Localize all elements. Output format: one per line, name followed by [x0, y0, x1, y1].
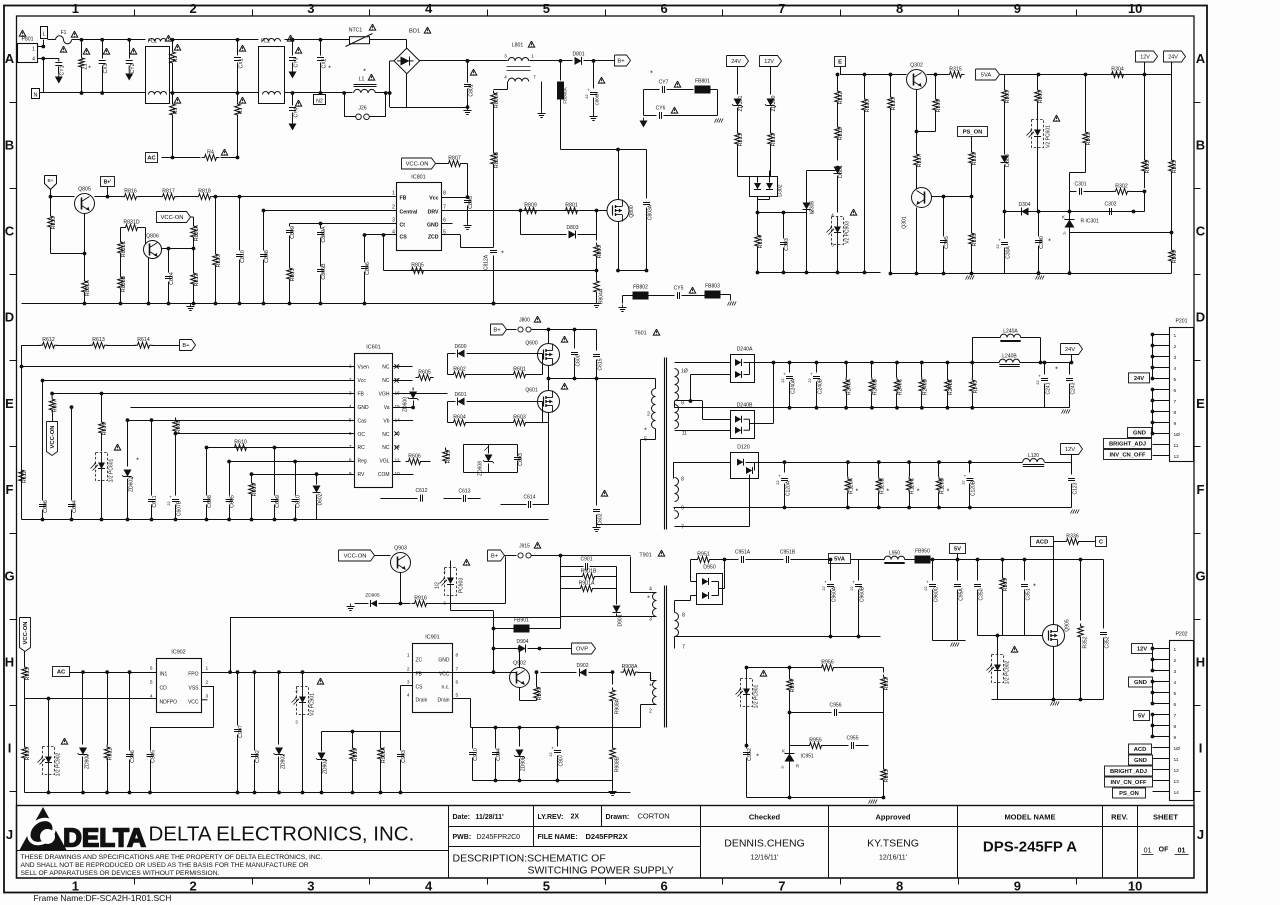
- svg-text:14: 14: [1174, 790, 1180, 796]
- diode D240A-1: [735, 359, 741, 366]
- resistor R602v: [51, 394, 53, 397]
- tick top: [605, 10, 607, 17]
- wire to fb901: [494, 628, 508, 630]
- svg-text:8: 8: [681, 477, 684, 483]
- wire 12v down: [1144, 62, 1146, 158]
- svg-text:L950: L950: [889, 551, 900, 557]
- P202 pin 5: [1153, 692, 1170, 694]
- svg-text:*: *: [136, 458, 139, 465]
- svg-text:V2 PC601: V2 PC601: [1046, 125, 1052, 148]
- wire N stub: [43, 59, 45, 94]
- svg-text:C301: C301: [1075, 181, 1087, 187]
- zener ZD905 body: [371, 600, 377, 607]
- capacitor C615: [596, 330, 598, 351]
- capacitor C241: [1044, 363, 1046, 375]
- wire r816-r817: [139, 196, 161, 198]
- capacitor C808: [263, 211, 265, 251]
- svg-text:+: +: [169, 495, 172, 500]
- wire E down: [840, 67, 842, 75]
- snubber C901 R901B R901A: [560, 556, 562, 617]
- capacitor C960C: [932, 560, 934, 581]
- svg-text:1Ø: 1Ø: [681, 369, 688, 375]
- svg-text:ZD600: ZD600: [403, 397, 409, 412]
- wire c612 row: [381, 498, 418, 500]
- wire 5va to rail: [1000, 74, 1005, 76]
- svg-text:B+: B+: [491, 554, 499, 560]
- svg-text:R801: R801: [565, 203, 578, 209]
- capacitor C95A: [957, 560, 959, 581]
- capacitor C951A: [741, 556, 743, 563]
- svg-text:3: 3: [1174, 355, 1177, 361]
- net label B+ 915: [488, 550, 505, 561]
- svg-text:3: 3: [392, 218, 395, 224]
- tick right: [1194, 446, 1201, 448]
- title header divider: [701, 826, 1195, 828]
- svg-text:R615: R615: [446, 451, 452, 464]
- wire t901 pin4: [631, 592, 657, 594]
- diode D304: [1021, 208, 1028, 216]
- svg-text:P202: P202: [1175, 632, 1187, 638]
- warning CY7: [674, 81, 680, 87]
- wire gnd row: [131, 407, 355, 409]
- warning CX1: [239, 45, 245, 51]
- svg-text:C608: C608: [207, 495, 213, 508]
- capacitor C240A: [789, 363, 791, 373]
- wire pin7: [675, 526, 750, 528]
- wire fb branch: [321, 732, 323, 757]
- svg-text:6: 6: [1174, 702, 1177, 708]
- capacitor C303 body: [780, 242, 787, 244]
- svg-text:5: 5: [150, 680, 153, 686]
- wire vccon-r807: [436, 163, 447, 165]
- wire sec7 rail: [674, 637, 676, 649]
- svg-text:R804A: R804A: [599, 288, 605, 304]
- svg-text:CY3: CY3: [294, 57, 300, 67]
- wire cas row: [128, 420, 355, 422]
- wire bottom rail right: [1005, 273, 1172, 275]
- zener ZD90B: [519, 728, 521, 747]
- wire q806 collector right: [162, 248, 194, 250]
- svg-text:Q800: Q800: [629, 205, 635, 217]
- svg-text:C809A: C809A: [321, 226, 327, 243]
- svg-text:7: 7: [778, 879, 785, 894]
- svg-text:1/2 PC601: 1/2 PC601: [109, 458, 115, 482]
- svg-text:2: 2: [649, 709, 652, 715]
- svg-text:C: C: [5, 224, 15, 239]
- svg-text:1: 1: [72, 1, 79, 16]
- box L: [41, 27, 48, 39]
- tick left: [10, 188, 17, 190]
- shunt reg IC301: [1069, 212, 1071, 220]
- svg-text:R301: R301: [1086, 133, 1092, 146]
- svg-text:R316: R316: [936, 100, 942, 113]
- svg-text:ZD602: ZD602: [129, 477, 135, 492]
- wire vcc branch ic901: [453, 672, 494, 674]
- wire r614-B+: [152, 345, 180, 347]
- zener ZD608: [445, 451, 447, 461]
- svg-text:AC: AC: [57, 670, 66, 676]
- svg-text:R807: R807: [448, 156, 461, 162]
- wire L top: [48, 39, 56, 41]
- P201 pin 6: [1153, 389, 1170, 391]
- P202 pin 4: [1153, 681, 1170, 683]
- svg-text:22: 22: [776, 480, 780, 484]
- svg-text:*: *: [856, 489, 859, 496]
- diode D120-1: [737, 459, 743, 466]
- resistor R317 body: [914, 152, 920, 168]
- P202 pin 12: [1153, 769, 1170, 771]
- P201 pin 7: [1153, 400, 1170, 402]
- svg-text:IC901: IC901: [425, 635, 439, 641]
- wire fb803: [721, 294, 731, 296]
- svg-text:C903: C903: [401, 750, 407, 763]
- wire q905 drain: [1053, 542, 1055, 625]
- resistor R922 body: [104, 745, 110, 761]
- wire central row: [264, 210, 397, 212]
- svg-text:22: 22: [850, 586, 854, 590]
- resistor R800A body: [491, 91, 497, 107]
- ground C805: [467, 223, 469, 226]
- svg-text:*: *: [363, 69, 366, 76]
- resistor R908B body: [610, 746, 616, 762]
- svg-text:C611: C611: [152, 495, 158, 507]
- wire to j915: [505, 557, 507, 604]
- capacitor C955: [851, 742, 853, 749]
- svg-text:G: G: [4, 568, 14, 583]
- svg-text:R820: R820: [216, 255, 222, 268]
- wire left drop: [21, 345, 23, 519]
- wire scr down: [806, 210, 808, 273]
- wire r807 down: [463, 163, 468, 165]
- svg-text:ZCD: ZCD: [428, 235, 439, 241]
- P202 pin 7: [1153, 714, 1170, 716]
- wire oc row: [176, 433, 355, 435]
- svg-text:R310: R310: [891, 98, 897, 111]
- svg-text:A: A: [781, 765, 784, 770]
- P201 pin 5: [1153, 378, 1170, 380]
- tick bottom: [1076, 878, 1078, 885]
- ground fb rail: [869, 800, 871, 804]
- ground L801: [541, 111, 543, 114]
- wire vccon down: [191, 216, 194, 218]
- svg-text:R365: R365: [1003, 579, 1009, 592]
- svg-text:Vcc: Vcc: [429, 196, 438, 202]
- svg-text:10: 10: [1128, 1, 1142, 16]
- ground 12v rail: [1071, 510, 1073, 514]
- svg-text:1/2 PC902: 1/2 PC902: [1005, 660, 1011, 684]
- ferrite FB901: [514, 625, 530, 633]
- svg-text:A: A: [1063, 231, 1066, 236]
- wire vgl to gate2: [393, 461, 442, 463]
- wire q903-r916: [401, 603, 411, 605]
- svg-text:D803: D803: [567, 225, 579, 231]
- svg-text:6: 6: [456, 680, 459, 686]
- svg-text:R302: R302: [1115, 183, 1128, 189]
- wire r301 down: [1070, 172, 1086, 174]
- capacitor C604 body: [68, 504, 75, 506]
- ground FB803: [728, 302, 730, 306]
- resistor R120B body: [876, 477, 882, 493]
- svg-text:4: 4: [1174, 366, 1177, 372]
- capacitor C903: [400, 732, 402, 749]
- capacitor C904: [495, 728, 497, 749]
- svg-text:1/2: 1/2: [435, 582, 441, 589]
- wire c956: [790, 712, 832, 714]
- net label B+ q805: [45, 176, 57, 190]
- wire q905 gnd rail: [992, 699, 1104, 701]
- T601 12V secondary: [675, 478, 679, 502]
- IC801 box: [397, 183, 442, 251]
- P201 pin 12: [1153, 455, 1170, 457]
- svg-text:6: 6: [661, 879, 668, 894]
- net label 12V p202: [1132, 644, 1153, 654]
- svg-text:C960A: C960A: [832, 586, 838, 602]
- warning PC901: [317, 678, 323, 684]
- resistor R800 body: [594, 243, 600, 259]
- wire q600 drain: [548, 330, 550, 344]
- warning T901: [658, 550, 664, 556]
- tick right: [1194, 360, 1201, 362]
- resistor R303 body: [1169, 158, 1175, 174]
- svg-text:D950: D950: [703, 565, 716, 571]
- capacitor CY1: [58, 59, 60, 62]
- svg-text:OC: OC: [358, 432, 366, 438]
- svg-text:2: 2: [349, 377, 352, 383]
- vertical rail 493: [493, 611, 495, 673]
- tick left: [10, 446, 17, 448]
- tick left: [10, 360, 17, 362]
- wire 24v top rail: [750, 362, 973, 364]
- svg-text:C240B: C240B: [818, 378, 824, 394]
- wire q302 emitter: [916, 90, 918, 132]
- wire to L801: [468, 60, 508, 62]
- svg-text:R607: R607: [53, 400, 59, 413]
- svg-text:J915: J915: [519, 544, 530, 550]
- svg-text:22: 22: [924, 586, 928, 590]
- net label C: [1096, 537, 1107, 547]
- wire 5va cont: [851, 559, 881, 561]
- capacitor CX2: [320, 40, 322, 56]
- svg-text:9: 9: [681, 401, 684, 407]
- ground FB801: [715, 119, 717, 123]
- svg-text:NTC1: NTC1: [349, 28, 363, 34]
- svg-text:11/28/11': 11/28/11': [476, 814, 504, 821]
- svg-text:9: 9: [681, 506, 684, 512]
- wire r612-r613: [57, 345, 91, 347]
- svg-text:GND: GND: [427, 223, 439, 229]
- net label B+ drive: [491, 324, 507, 335]
- svg-text:C305: C305: [944, 236, 950, 249]
- wire FB801 right: [711, 89, 718, 91]
- capacitor C824 body: [165, 276, 172, 278]
- svg-text:C613: C613: [459, 489, 471, 495]
- capacitor C905 body: [147, 754, 154, 756]
- tick right: [1194, 533, 1201, 535]
- svg-text:VGH: VGH: [379, 391, 390, 397]
- svg-text:C952: C952: [747, 748, 753, 761]
- ferrite FB802: [633, 292, 649, 300]
- svg-text:C905: C905: [151, 750, 157, 763]
- svg-text:CS: CS: [400, 235, 408, 241]
- capacitor C609: [274, 448, 276, 496]
- optocoupler PC601r: [1032, 120, 1044, 148]
- wire q301 base: [932, 196, 972, 198]
- capacitor C903 body: [397, 754, 404, 756]
- svg-text:IN1: IN1: [160, 672, 168, 678]
- line filter FL1: [146, 47, 170, 104]
- svg-text:D902: D902: [577, 663, 589, 669]
- resistor R901A: [578, 586, 596, 592]
- tick top: [134, 10, 136, 17]
- svg-text:+: +: [1038, 374, 1041, 379]
- svg-text:1: 1: [407, 653, 410, 659]
- tick right: [1194, 188, 1201, 190]
- svg-text:C95A: C95A: [959, 588, 965, 601]
- capacitor C901: [585, 563, 587, 570]
- box N2: [314, 95, 326, 105]
- svg-text:D301: D301: [838, 165, 844, 178]
- resistor R240A: [846, 363, 848, 378]
- svg-text:FB800A: FB800A: [563, 87, 568, 103]
- svg-text:AND SHALL NOT BE REPRODUCED OR: AND SHALL NOT BE REPRODUCED OR USED AS T…: [21, 862, 309, 869]
- capacitor C240B body: [813, 376, 820, 378]
- resistor R310 body: [888, 95, 894, 111]
- T601 24V secondary: [675, 369, 679, 401]
- svg-text:C808: C808: [264, 250, 270, 263]
- connector P201: [1170, 328, 1194, 462]
- wire R4 to R3: [221, 157, 238, 159]
- capacitor C801: [467, 61, 469, 83]
- wire r613-r614: [107, 345, 136, 347]
- capacitor C951B: [786, 556, 788, 563]
- net label PS_ON p202: [1113, 788, 1146, 798]
- svg-text:R312: R312: [771, 134, 777, 147]
- svg-text:Drawn:: Drawn:: [606, 814, 630, 821]
- svg-text:12/16/11': 12/16/11': [750, 855, 778, 862]
- svg-text:A: A: [1196, 51, 1206, 66]
- capacitor C608: [206, 448, 208, 496]
- svg-text:R608: R608: [176, 421, 182, 434]
- svg-text:C812A: C812A: [484, 254, 490, 270]
- svg-text:5: 5: [456, 693, 459, 699]
- svg-text:C352: C352: [1105, 636, 1111, 648]
- mosfet Q600: [538, 344, 560, 366]
- svg-text:IC801: IC801: [411, 175, 425, 181]
- resistor R4: [202, 155, 220, 161]
- tick right: [1194, 274, 1201, 276]
- svg-text:R922: R922: [108, 748, 114, 761]
- wire r916 right: [429, 603, 506, 605]
- wire base row left: [51, 196, 75, 198]
- wire q805 top: [107, 187, 109, 197]
- wire gate net vert2: [447, 402, 449, 423]
- svg-text:D601: D601: [455, 392, 467, 398]
- capacitor C123 body: [1068, 478, 1075, 480]
- wire r817-r818: [177, 196, 197, 198]
- resistor R352 body: [1078, 624, 1084, 640]
- svg-text:E: E: [838, 60, 842, 66]
- resistor R916: [412, 601, 430, 607]
- resistor R830 body: [48, 214, 54, 230]
- svg-text:9: 9: [1014, 1, 1021, 16]
- wire q905 source: [1053, 647, 1055, 700]
- svg-text:H: H: [1196, 655, 1205, 670]
- svg-text:22: 22: [549, 752, 553, 756]
- capacitor C805 body: [464, 200, 471, 202]
- wire fb5 top rail: [747, 667, 790, 669]
- net label E: [835, 57, 846, 67]
- net label 5V: [950, 544, 966, 554]
- wire r602-r601: [468, 374, 512, 376]
- wire l240a out: [1021, 337, 1041, 339]
- svg-text:6: 6: [1174, 388, 1177, 394]
- capacitor C809 body: [286, 230, 293, 232]
- svg-text:R304: R304: [1111, 67, 1124, 73]
- tick bottom: [605, 878, 607, 885]
- svg-text:R300: R300: [1005, 91, 1011, 104]
- svg-text:CY7: CY7: [659, 80, 669, 86]
- svg-text:22: 22: [167, 501, 171, 505]
- svg-text:CD: CD: [160, 686, 168, 692]
- svg-text:FB950: FB950: [915, 549, 930, 555]
- svg-text:R956: R956: [821, 660, 834, 666]
- net label INV_CN_OFF p202: [1105, 777, 1153, 787]
- svg-text:R240E: R240E: [948, 378, 954, 395]
- svg-text:ZC: ZC: [416, 658, 423, 664]
- resistor R605: [393, 366, 413, 368]
- resistor R901B: [580, 574, 598, 580]
- svg-text:N2: N2: [316, 99, 323, 105]
- svg-text:C904: C904: [496, 748, 502, 761]
- svg-text:R808B: R808B: [494, 151, 500, 168]
- svg-text:R800: R800: [597, 246, 603, 259]
- tick right: [1194, 705, 1201, 707]
- svg-text:NDFPO: NDFPO: [160, 700, 178, 706]
- varistor Z1 body: [79, 56, 85, 70]
- resistor R923: [24, 652, 26, 665]
- zener ZD600: [412, 381, 414, 388]
- wire drain top: [561, 149, 647, 151]
- wire fb802 row: [623, 295, 633, 297]
- zener ZD300: [767, 99, 775, 106]
- resistor R831C body: [118, 240, 124, 256]
- wire cs to ic901: [400, 686, 402, 732]
- svg-text:R120C: R120C: [910, 478, 916, 495]
- svg-text:*: *: [647, 596, 650, 603]
- wire fpo out: [202, 672, 231, 674]
- svg-text:2: 2: [647, 412, 650, 418]
- svg-text:B+: B+: [493, 328, 501, 334]
- svg-text:C803A: C803A: [648, 204, 654, 220]
- capacitor C902: [254, 672, 256, 750]
- net label 5V p202: [1134, 711, 1150, 721]
- svg-text:FB802: FB802: [633, 285, 648, 291]
- svg-text:D240A: D240A: [737, 347, 753, 353]
- resistor R300a body: [1002, 88, 1008, 104]
- tick bottom: [134, 878, 136, 885]
- svg-text:COM: COM: [378, 472, 390, 478]
- resistor R240D body: [919, 378, 925, 394]
- diode D600: [457, 350, 464, 358]
- wire vcc pin3: [202, 699, 208, 701]
- wire r908b gnd: [612, 781, 614, 789]
- bridge rectifier BD1: [394, 48, 420, 74]
- wire N row: [40, 92, 146, 94]
- wire drv row: [442, 210, 608, 212]
- svg-text:SELL OF APPARATUSES OR DEVICES: SELL OF APPARATUSES OR DEVICES WITHOUT P…: [21, 870, 220, 877]
- svg-text:7: 7: [1174, 399, 1177, 405]
- wire snubber right: [616, 567, 618, 605]
